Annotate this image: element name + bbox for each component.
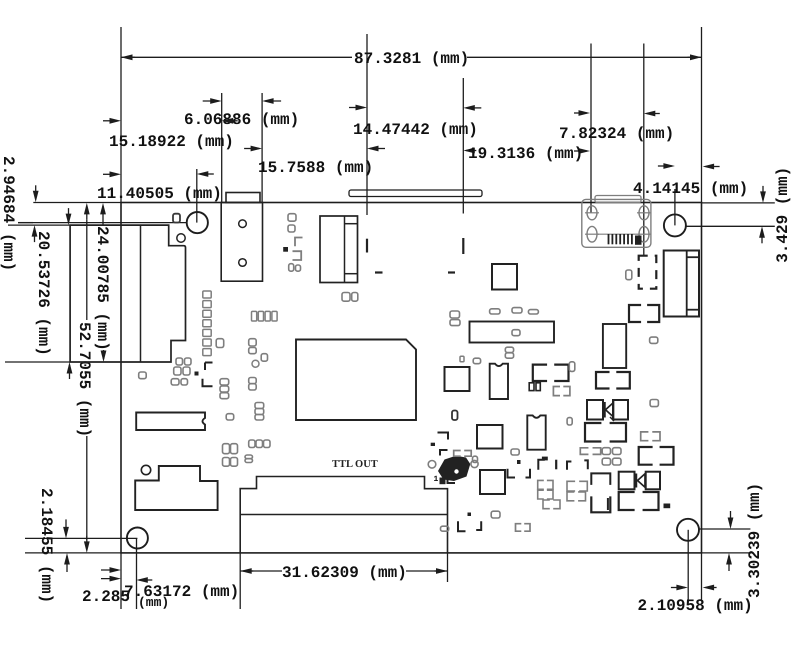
- mounting hole top-left: [187, 212, 208, 233]
- micro-USB CN3 top tab: [595, 196, 641, 203]
- mark corner 8: [458, 521, 466, 531]
- micro-USB CN3 pad B: [587, 226, 597, 242]
- pad b12: [261, 354, 267, 362]
- pad b17: [220, 393, 229, 399]
- pad a6: [289, 264, 294, 272]
- mark dot 16: [284, 248, 288, 252]
- svg-text:20.53726 (mm): 20.53726 (mm): [34, 231, 52, 356]
- pad b18: [255, 403, 264, 409]
- micro-USB CN3 shell: [582, 199, 651, 247]
- connector CN4 inner bottom line: [687, 309, 699, 311]
- component C2 square: [477, 425, 503, 449]
- pad e3: [602, 458, 610, 465]
- svg-text:11.40505 (mm): 11.40505 (mm): [97, 185, 222, 203]
- dimension 52.7055 arrows: [84, 203, 90, 215]
- pad d2: [352, 293, 358, 302]
- power jack CN2 hole 1: [239, 220, 247, 228]
- pad e5 bracket pair: [580, 448, 588, 455]
- pad d4: [450, 320, 460, 326]
- dimension 2.18455 arrows: [63, 527, 69, 539]
- component C5 tall: [603, 324, 626, 368]
- connector CN6 inner line: [240, 514, 447, 516]
- extension line x=447.5 ttl right: [447, 553, 449, 582]
- dimension 2.285 arrows: [110, 576, 122, 582]
- dimension 6.06886 arrows: [210, 98, 222, 104]
- extension line x=240 ttl left: [239, 553, 241, 609]
- pad d17 bracket pair: [641, 432, 649, 441]
- connector CN4 right edge body: [664, 251, 699, 317]
- connector CN6 TTL OUT outline: [240, 477, 447, 553]
- extension line x=222 power jack left: [221, 93, 223, 203]
- micro-USB CN3 pin bars: [608, 234, 610, 244]
- component U2 wide: [470, 322, 555, 343]
- board outline: [121, 203, 702, 553]
- extension line x=644 usb pad: [643, 44, 645, 257]
- pad d3: [450, 311, 460, 318]
- pad c8: [223, 458, 230, 467]
- pad e16 bracket pair: [538, 490, 544, 499]
- power jack CN2 hole 2: [239, 259, 247, 267]
- pad e18 bracket pair: [567, 481, 575, 491]
- pad b1: [176, 358, 183, 365]
- svg-text:15.7588 (mm): 15.7588 (mm): [258, 159, 373, 177]
- svg-text:14.47442 (mm): 14.47442 (mm): [353, 121, 478, 139]
- mounting hole top-right: [664, 214, 686, 236]
- dimension 2.94684 arrows: [33, 191, 39, 203]
- component R3 bracket pair: [585, 423, 601, 442]
- svg-text:3.429 (mm): 3.429 (mm): [774, 167, 792, 263]
- svg-text:2.285: 2.285: [82, 588, 130, 606]
- extension line x=367: [366, 34, 368, 215]
- IC U1 main chip: [296, 340, 416, 421]
- pad b14: [249, 384, 257, 390]
- pad d5: [490, 309, 500, 314]
- pad e13 pill: [511, 449, 519, 455]
- component U3 cell top: [345, 223, 358, 225]
- power jack CN2 body: [221, 203, 262, 282]
- component C3 square: [480, 470, 505, 494]
- dimension 14.47442 arrows: [356, 105, 368, 111]
- mark corner 2: [203, 379, 213, 387]
- top edge extension right: [702, 202, 775, 204]
- dimension 19.3136 arrows: [463, 148, 475, 154]
- mark corner e14a: [538, 460, 545, 470]
- svg-text:52.7055 (mm): 52.7055 (mm): [75, 322, 93, 437]
- mark dash 11: [607, 498, 609, 510]
- pad a5 bracket: [293, 251, 302, 260]
- dimension 7.63172 arrows: [110, 567, 122, 573]
- component C7 notched cap: [527, 415, 545, 449]
- component R6 bracket pair: [619, 492, 635, 510]
- pad b11 ring: [252, 360, 259, 367]
- pad d6: [512, 308, 522, 313]
- pad b3: [174, 367, 181, 375]
- pad a3: [288, 225, 295, 232]
- connector CN4 inner line: [686, 251, 688, 317]
- mark corner 6: [508, 469, 516, 478]
- mark dot 14: [542, 457, 547, 460]
- pad d15: [650, 400, 658, 407]
- mark dot e13b: [518, 461, 521, 464]
- pad e15 bracket pair: [538, 480, 544, 489]
- mark corner 5: [448, 477, 456, 483]
- pad row J8: [252, 311, 257, 321]
- connector top extension y=225.1: [8, 224, 70, 226]
- pad b16: [220, 386, 229, 392]
- diode D1: [587, 400, 603, 420]
- mounting hole bottom-right: [677, 519, 699, 541]
- svg-text:31.62309 (mm): 31.62309 (mm): [282, 564, 407, 582]
- pad c1: [223, 444, 230, 454]
- pad d1: [342, 293, 350, 302]
- svg-text:7.82324 (mm): 7.82324 (mm): [559, 125, 674, 143]
- dashed component body bottom dashes: [375, 271, 383, 273]
- bottom edge extension right: [702, 552, 751, 554]
- pad d10: [473, 358, 480, 364]
- dimension 24.00785 arrows: [100, 203, 106, 215]
- extension line x=463: [462, 78, 464, 214]
- crystal X1: [136, 413, 205, 431]
- mark corner 1: [205, 363, 213, 371]
- extension line x=591 usb pad: [590, 44, 592, 214]
- svg-text:1: 1: [434, 475, 439, 484]
- pad d7: [528, 310, 538, 314]
- pad a7: [296, 265, 301, 271]
- dimension 31.62309 arrows: [240, 568, 252, 574]
- pad c9: [231, 458, 238, 467]
- svg-text:24.00785 (mm): 24.00785 (mm): [93, 226, 111, 351]
- mounting hole bottom-left: [127, 528, 148, 549]
- connector CN1 inner line: [140, 225, 142, 362]
- mark corner e14d: [584, 460, 588, 469]
- mark dot 13: [468, 513, 471, 516]
- micro-USB CN3 pin block: [636, 236, 642, 244]
- pad black pill: [452, 411, 458, 421]
- pad d11: [569, 362, 575, 372]
- hole bottom-left horizontal leader: [25, 537, 137, 539]
- pad e9 ring: [471, 460, 478, 467]
- pad e10: [491, 511, 500, 518]
- pad e2: [613, 448, 622, 455]
- component C4 square: [492, 264, 517, 290]
- pad usb small: [460, 356, 464, 362]
- hole top-left horizontal leader: [18, 222, 188, 224]
- pad c5: [264, 440, 271, 448]
- pad c7: [245, 459, 253, 463]
- pad d16: [626, 270, 632, 280]
- pad a4 bracket: [295, 238, 303, 247]
- component R2 bracket pair: [596, 372, 610, 389]
- pad d8: [505, 347, 513, 352]
- mark dot 12: [431, 443, 434, 445]
- bottom edge extension left: [25, 552, 121, 554]
- component U3 box: [320, 216, 358, 283]
- component dashed below USB: [639, 256, 657, 289]
- connector CN4 inner top line: [687, 256, 699, 258]
- pad b13: [249, 378, 257, 384]
- mark corner 9: [476, 521, 481, 530]
- pad b15: [220, 379, 229, 385]
- dimension 20.53726 arrows: [66, 214, 72, 226]
- component U2 pad: [512, 330, 520, 336]
- mark pad below blob: [440, 478, 445, 484]
- extension line board left edge: [120, 27, 122, 203]
- hole top-right horizontal leader: [686, 225, 775, 227]
- dimension 87.3281 arrows: [121, 54, 133, 60]
- pad e11: [441, 526, 449, 531]
- dimension 11.40505 arrows: [110, 171, 122, 177]
- svg-text:2.94684 (mm): 2.94684 (mm): [0, 156, 17, 271]
- dimension 2.10958 arrows: [676, 585, 688, 591]
- connector bar on top edge: [349, 190, 482, 197]
- dimension 4.14145 arrows: [663, 163, 675, 169]
- component U-shape: [591, 496, 610, 512]
- mark corner 4: [440, 450, 448, 456]
- extension line x=262 power jack right: [261, 93, 263, 203]
- svg-text:3.30239 (mm): 3.30239 (mm): [746, 483, 764, 598]
- pad b2: [185, 358, 192, 365]
- pad b9: [249, 339, 257, 346]
- dimension 31.62309 line: [240, 570, 282, 572]
- connector CN1 LVDS input outline: [70, 225, 185, 362]
- pad c4: [256, 440, 263, 448]
- mark corner 3: [438, 433, 449, 440]
- component U3 cell bottom: [345, 273, 358, 275]
- pad e4: [613, 458, 622, 465]
- mark dot 17: [195, 372, 198, 375]
- dashed component body right side: [462, 238, 464, 254]
- pad e17 bracket pair: [543, 500, 550, 509]
- pad b8: [216, 339, 224, 348]
- svg-text:2.18455 (mm): 2.18455 (mm): [37, 488, 55, 603]
- dimension 3.429 arrows: [760, 191, 766, 203]
- pad b5: [171, 379, 179, 385]
- hole top-left vertical leader: [196, 169, 198, 223]
- pads f1: [529, 383, 534, 391]
- svg-text:19.3136 (mm): 19.3136 (mm): [468, 145, 583, 163]
- component R1 bracket pair: [533, 365, 547, 381]
- mark corner 7: [526, 469, 531, 478]
- pad b7: [139, 372, 147, 379]
- dimension 87.3281 line: [121, 56, 352, 58]
- hole bottom-left vertical leader: [136, 538, 138, 609]
- pad c3: [249, 440, 255, 448]
- dashed component body left side: [366, 239, 368, 253]
- pad e6 ring: [428, 461, 436, 469]
- pad b20: [255, 415, 264, 421]
- pad e8: [473, 456, 478, 462]
- pad a1: [173, 214, 180, 223]
- component R4 bracket pair: [629, 305, 641, 322]
- pad a2: [288, 214, 296, 222]
- svg-text:4.14145 (mm): 4.14145 (mm): [633, 180, 748, 198]
- pad e12 bracket pair: [516, 524, 522, 532]
- micro-USB CN3 pad row line: [597, 233, 637, 235]
- connector CN5 pin hole: [141, 465, 150, 474]
- pad d13: [567, 418, 572, 425]
- svg-text:87.3281 (mm): 87.3281 (mm): [354, 50, 469, 68]
- connector bottom extension y=362: [5, 361, 70, 363]
- pad b19: [255, 409, 264, 415]
- pad d14: [650, 337, 658, 343]
- svg-text:2.10958 (mm): 2.10958 (mm): [638, 597, 753, 615]
- hole top-right vertical leader: [674, 189, 676, 225]
- pad b21: [226, 414, 234, 420]
- dimension 15.18922 arrows: [110, 118, 122, 124]
- power jack CN2 top tab: [226, 193, 260, 203]
- dimension 3.30239 arrows: [728, 518, 734, 530]
- pad e7 bracket pair: [454, 451, 461, 457]
- component R5 bracket pair: [639, 447, 653, 465]
- component C6 notched cap: [490, 364, 508, 399]
- pad e1: [602, 448, 610, 455]
- svg-text:TTL OUT: TTL OUT: [332, 459, 378, 470]
- hole bottom-right vertical leader: [687, 530, 689, 600]
- hole line y=222.6 to label: [18, 222, 33, 224]
- micro-USB CN3 pad C: [639, 206, 649, 220]
- hole bottom-right horizontal leader: [699, 528, 750, 530]
- pad b4: [183, 367, 190, 375]
- mark dash e14b: [555, 460, 557, 470]
- pad d12 bracket pair: [553, 387, 560, 396]
- pad column J7: [203, 291, 211, 298]
- connector CN1 pin1 hole: [177, 234, 185, 242]
- diode D2: [619, 472, 635, 490]
- svg-text:(mm): (mm): [138, 595, 169, 610]
- svg-text:6.06886 (mm): 6.06886 (mm): [184, 111, 299, 129]
- component U3 inner line: [344, 216, 346, 283]
- mark corner e14c: [567, 462, 571, 470]
- mark corner 10: [591, 473, 610, 485]
- micro-USB CN3 pad D: [639, 226, 649, 242]
- top edge extension left: [33, 202, 121, 204]
- component Q1 blob: [438, 456, 470, 481]
- micro-USB CN3 pad A: [587, 206, 597, 220]
- connector CN5 stepped body: [135, 466, 217, 510]
- pad b6: [181, 379, 188, 385]
- pad c2: [231, 444, 238, 454]
- pad e19 bracket pair: [567, 492, 574, 501]
- mark dot 15: [664, 504, 670, 508]
- pad b10: [249, 348, 257, 354]
- dimension 7.82324 arrows: [579, 110, 591, 116]
- component C1 square: [445, 367, 470, 391]
- pad d9: [505, 353, 513, 358]
- dimension 52.7055 line: [86, 220, 88, 320]
- svg-text:15.18922 (mm): 15.18922 (mm): [109, 133, 234, 151]
- dimension 15.7588 arrows: [251, 146, 263, 152]
- pad c6: [245, 455, 253, 459]
- extension line board right edge: [701, 27, 703, 203]
